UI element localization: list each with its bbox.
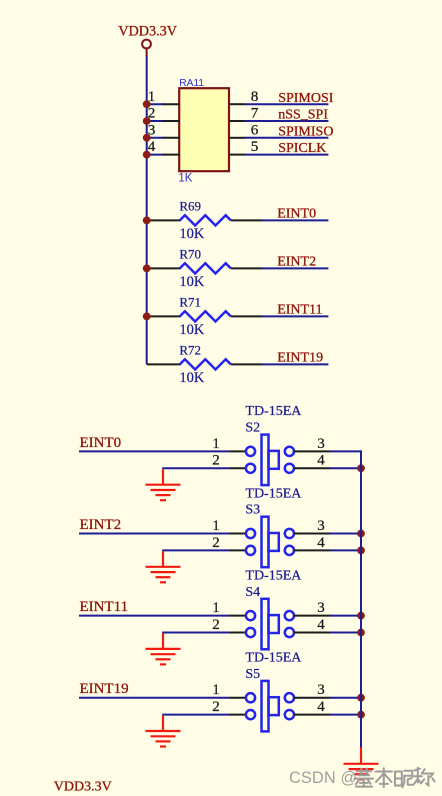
switch S3 (TD-15EA) symbol [246, 517, 294, 568]
S4 pin 2 (stub + number) [212, 617, 246, 633]
wire: S3 pin 4 to right bus [330, 549, 362, 551]
svg-text:2: 2 [212, 535, 220, 551]
svg-text:R69: R69 [179, 198, 201, 213]
svg-text:1: 1 [212, 436, 220, 452]
svg-text:EINT2: EINT2 [80, 517, 122, 533]
wire: net SPIMOSI [245, 103, 329, 105]
wire: R70 right stub [231, 267, 262, 269]
ground (below S3 pin 2) [146, 551, 181, 582]
svg-text:CSDN @: CSDN @ [289, 769, 357, 787]
svg-text:3: 3 [317, 682, 325, 698]
svg-text:TD-15EA: TD-15EA [245, 486, 302, 501]
S4 pin 1 (stub + number) [212, 600, 246, 616]
svg-text:EINT11: EINT11 [80, 599, 129, 615]
svg-text:R72: R72 [179, 342, 201, 357]
svg-text:1: 1 [212, 600, 220, 616]
S5 pin 4 (stub + number) [294, 699, 331, 715]
svg-text:TD-15EA: TD-15EA [245, 651, 302, 666]
wire: ground to S2 pin 2 [162, 467, 230, 469]
ground (bottom of right bus) [344, 747, 379, 779]
svg-text:1K: 1K [178, 173, 192, 185]
ground (below S5 pin 2) [146, 716, 181, 747]
RA11 pin 6 (right stub) [229, 121, 259, 138]
svg-text:1: 1 [212, 518, 220, 534]
svg-text:2: 2 [212, 453, 220, 469]
junction: right bus / S5 pin 3 [357, 694, 365, 702]
S3 pin 2 (stub + number) [212, 535, 246, 551]
resistor R69 [180, 215, 231, 225]
resistor R70 [180, 263, 231, 273]
junction: bus / R70 [143, 265, 151, 273]
junction: right bus / S4 pin 3 [357, 612, 365, 620]
svg-text:VDD3.3V: VDD3.3V [54, 780, 112, 795]
junction: bus / RA11 pin 3 [143, 134, 151, 142]
wire: bus to RA11 pin 1 [147, 103, 164, 105]
svg-text:EINT2: EINT2 [277, 255, 316, 270]
wire: bus to RA11 pin 3 [147, 137, 164, 139]
S5 pin 2 (stub + number) [212, 699, 246, 715]
ground (below S2 pin 2) [146, 469, 181, 500]
svg-text:1: 1 [212, 682, 220, 698]
svg-text:EINT0: EINT0 [80, 435, 122, 451]
svg-text:7: 7 [251, 105, 259, 122]
ground (below S4 pin 2) [146, 634, 181, 665]
svg-text:4: 4 [317, 535, 325, 551]
junction: bus / RA11 pin 4 [143, 151, 151, 159]
RA11 pin 8 (right stub) [229, 88, 259, 105]
junction: right bus / S5 pin 4 [357, 711, 365, 719]
RA11 pin 7 (right stub) [229, 105, 259, 122]
wire: bus to R69 [147, 219, 181, 221]
svg-text:S3: S3 [245, 503, 260, 518]
wire: VDD3.3V vertical bus [146, 56, 148, 365]
svg-text:3: 3 [317, 436, 325, 452]
svg-text:SPICLK: SPICLK [278, 141, 326, 156]
svg-text:EINT0: EINT0 [277, 207, 316, 222]
svg-text:10K: 10K [179, 226, 205, 242]
RA11 pin 4 (left stub) [148, 138, 180, 155]
svg-text:10K: 10K [179, 322, 205, 338]
wire: bus to RA11 pin 4 [147, 154, 164, 156]
svg-text:nSS_SPI: nSS_SPI [278, 108, 328, 123]
resistor network RA11 body [179, 88, 229, 171]
wire: ground to S5 pin 2 [162, 714, 230, 716]
junction: right bus / S3 pin 4 [357, 547, 365, 555]
svg-text:6: 6 [251, 121, 259, 138]
wire: net EINT0 [261, 219, 329, 221]
resistor R71 [180, 311, 231, 321]
svg-text:TD-15EA: TD-15EA [245, 568, 302, 583]
junction: bus / R69 [143, 217, 151, 225]
RA11 pin 2 (left stub) [148, 105, 180, 122]
power port VDD3.3V (top) [118, 24, 177, 56]
svg-text:SPIMISO: SPIMISO [278, 124, 333, 139]
S4 pin 4 (stub + number) [294, 617, 331, 633]
wire: S5 pin 4 to right bus [330, 714, 362, 716]
wire: net SPICLK [245, 154, 329, 156]
wire: net SPIMISO [245, 137, 329, 139]
wire: bus to R71 [147, 315, 181, 317]
wire: bus to R72 [147, 363, 181, 365]
junction: right bus / S2 pin 4 [357, 464, 365, 472]
wire: net EINT2 [261, 267, 329, 269]
svg-text:S2: S2 [245, 421, 260, 436]
wire: S4 pin 4 to right bus [330, 632, 362, 634]
RA11 pin 1 (left stub) [148, 88, 180, 105]
svg-text:3: 3 [317, 600, 325, 616]
svg-text:4: 4 [317, 617, 325, 633]
watermark CJK characters [355, 768, 435, 788]
wire: S2 pin 3 to right bus [330, 450, 362, 452]
svg-text:SPIMOSI: SPIMOSI [278, 91, 334, 106]
S2 pin 3 (stub + number) [294, 436, 331, 452]
S4 pin 3 (stub + number) [294, 600, 331, 616]
switch S4 (TD-15EA) symbol [246, 599, 294, 650]
RA11 pin 5 (right stub) [229, 138, 258, 155]
svg-text:3: 3 [317, 518, 325, 534]
svg-text:4: 4 [317, 699, 325, 715]
wire: R69 right stub [231, 219, 262, 221]
wire: S2 pin 4 to right bus [330, 467, 362, 469]
svg-text:R71: R71 [179, 294, 201, 309]
wire: net nSS_SPI [245, 120, 329, 122]
wire: S5 pin 3 to right bus [330, 697, 362, 699]
svg-text:S5: S5 [245, 667, 260, 682]
wire: net EINT0 to S2 pin 1 [79, 450, 230, 452]
switch S5 (TD-15EA) symbol [246, 681, 294, 732]
svg-text:2: 2 [212, 617, 220, 633]
wire: R72 right stub [231, 363, 262, 365]
wire: bus to RA11 pin 2 [147, 120, 164, 122]
wire: S3 pin 3 to right bus [330, 533, 362, 535]
S2 pin 4 (stub + number) [294, 453, 331, 469]
svg-text:10K: 10K [179, 370, 205, 386]
S2 pin 1 (stub + number) [212, 436, 246, 452]
svg-text:10K: 10K [179, 274, 205, 290]
S2 pin 2 (stub + number) [212, 453, 246, 469]
svg-text:VDD3.3V: VDD3.3V [118, 24, 177, 40]
wire: ground to S3 pin 2 [162, 549, 230, 551]
junction: bus / R71 [143, 313, 151, 321]
wire: ground to S4 pin 2 [162, 632, 230, 634]
svg-text:R70: R70 [179, 246, 201, 261]
wire: S4 pin 3 to right bus [330, 615, 362, 617]
svg-text:4: 4 [317, 453, 325, 469]
S3 pin 3 (stub + number) [294, 518, 331, 534]
wire: net EINT19 to S5 pin 1 [79, 697, 230, 699]
svg-text:5: 5 [251, 138, 259, 155]
wire: net EINT11 to S4 pin 1 [79, 615, 230, 617]
wire: bus to R70 [147, 267, 181, 269]
wire: R71 right stub [231, 315, 262, 317]
svg-text:EINT11: EINT11 [277, 303, 322, 318]
svg-text:S4: S4 [245, 585, 260, 600]
S3 pin 1 (stub + number) [212, 518, 246, 534]
RA11 pin 3 (left stub) [148, 121, 180, 138]
junction: right bus / S4 pin 4 [357, 629, 365, 637]
resistor R72 [180, 359, 231, 369]
svg-text:TD-15EA: TD-15EA [245, 404, 302, 419]
S3 pin 4 (stub + number) [294, 535, 331, 551]
svg-text:8: 8 [251, 88, 259, 105]
junction: right bus / S3 pin 3 [357, 530, 365, 538]
wire: net EINT2 to S3 pin 1 [79, 533, 230, 535]
S5 pin 3 (stub + number) [294, 682, 331, 698]
svg-text:2: 2 [212, 699, 220, 715]
svg-text:EINT19: EINT19 [277, 351, 323, 366]
wire: right vertical bus [360, 450, 362, 748]
junction: bus / RA11 pin 1 [143, 100, 151, 108]
switch S2 (TD-15EA) symbol [246, 435, 294, 486]
wire: net EINT19 [261, 363, 329, 365]
S5 pin 1 (stub + number) [212, 682, 246, 698]
svg-text:EINT19: EINT19 [80, 681, 129, 697]
junction: bus / RA11 pin 2 [143, 117, 151, 125]
wire: net EINT11 [261, 315, 329, 317]
